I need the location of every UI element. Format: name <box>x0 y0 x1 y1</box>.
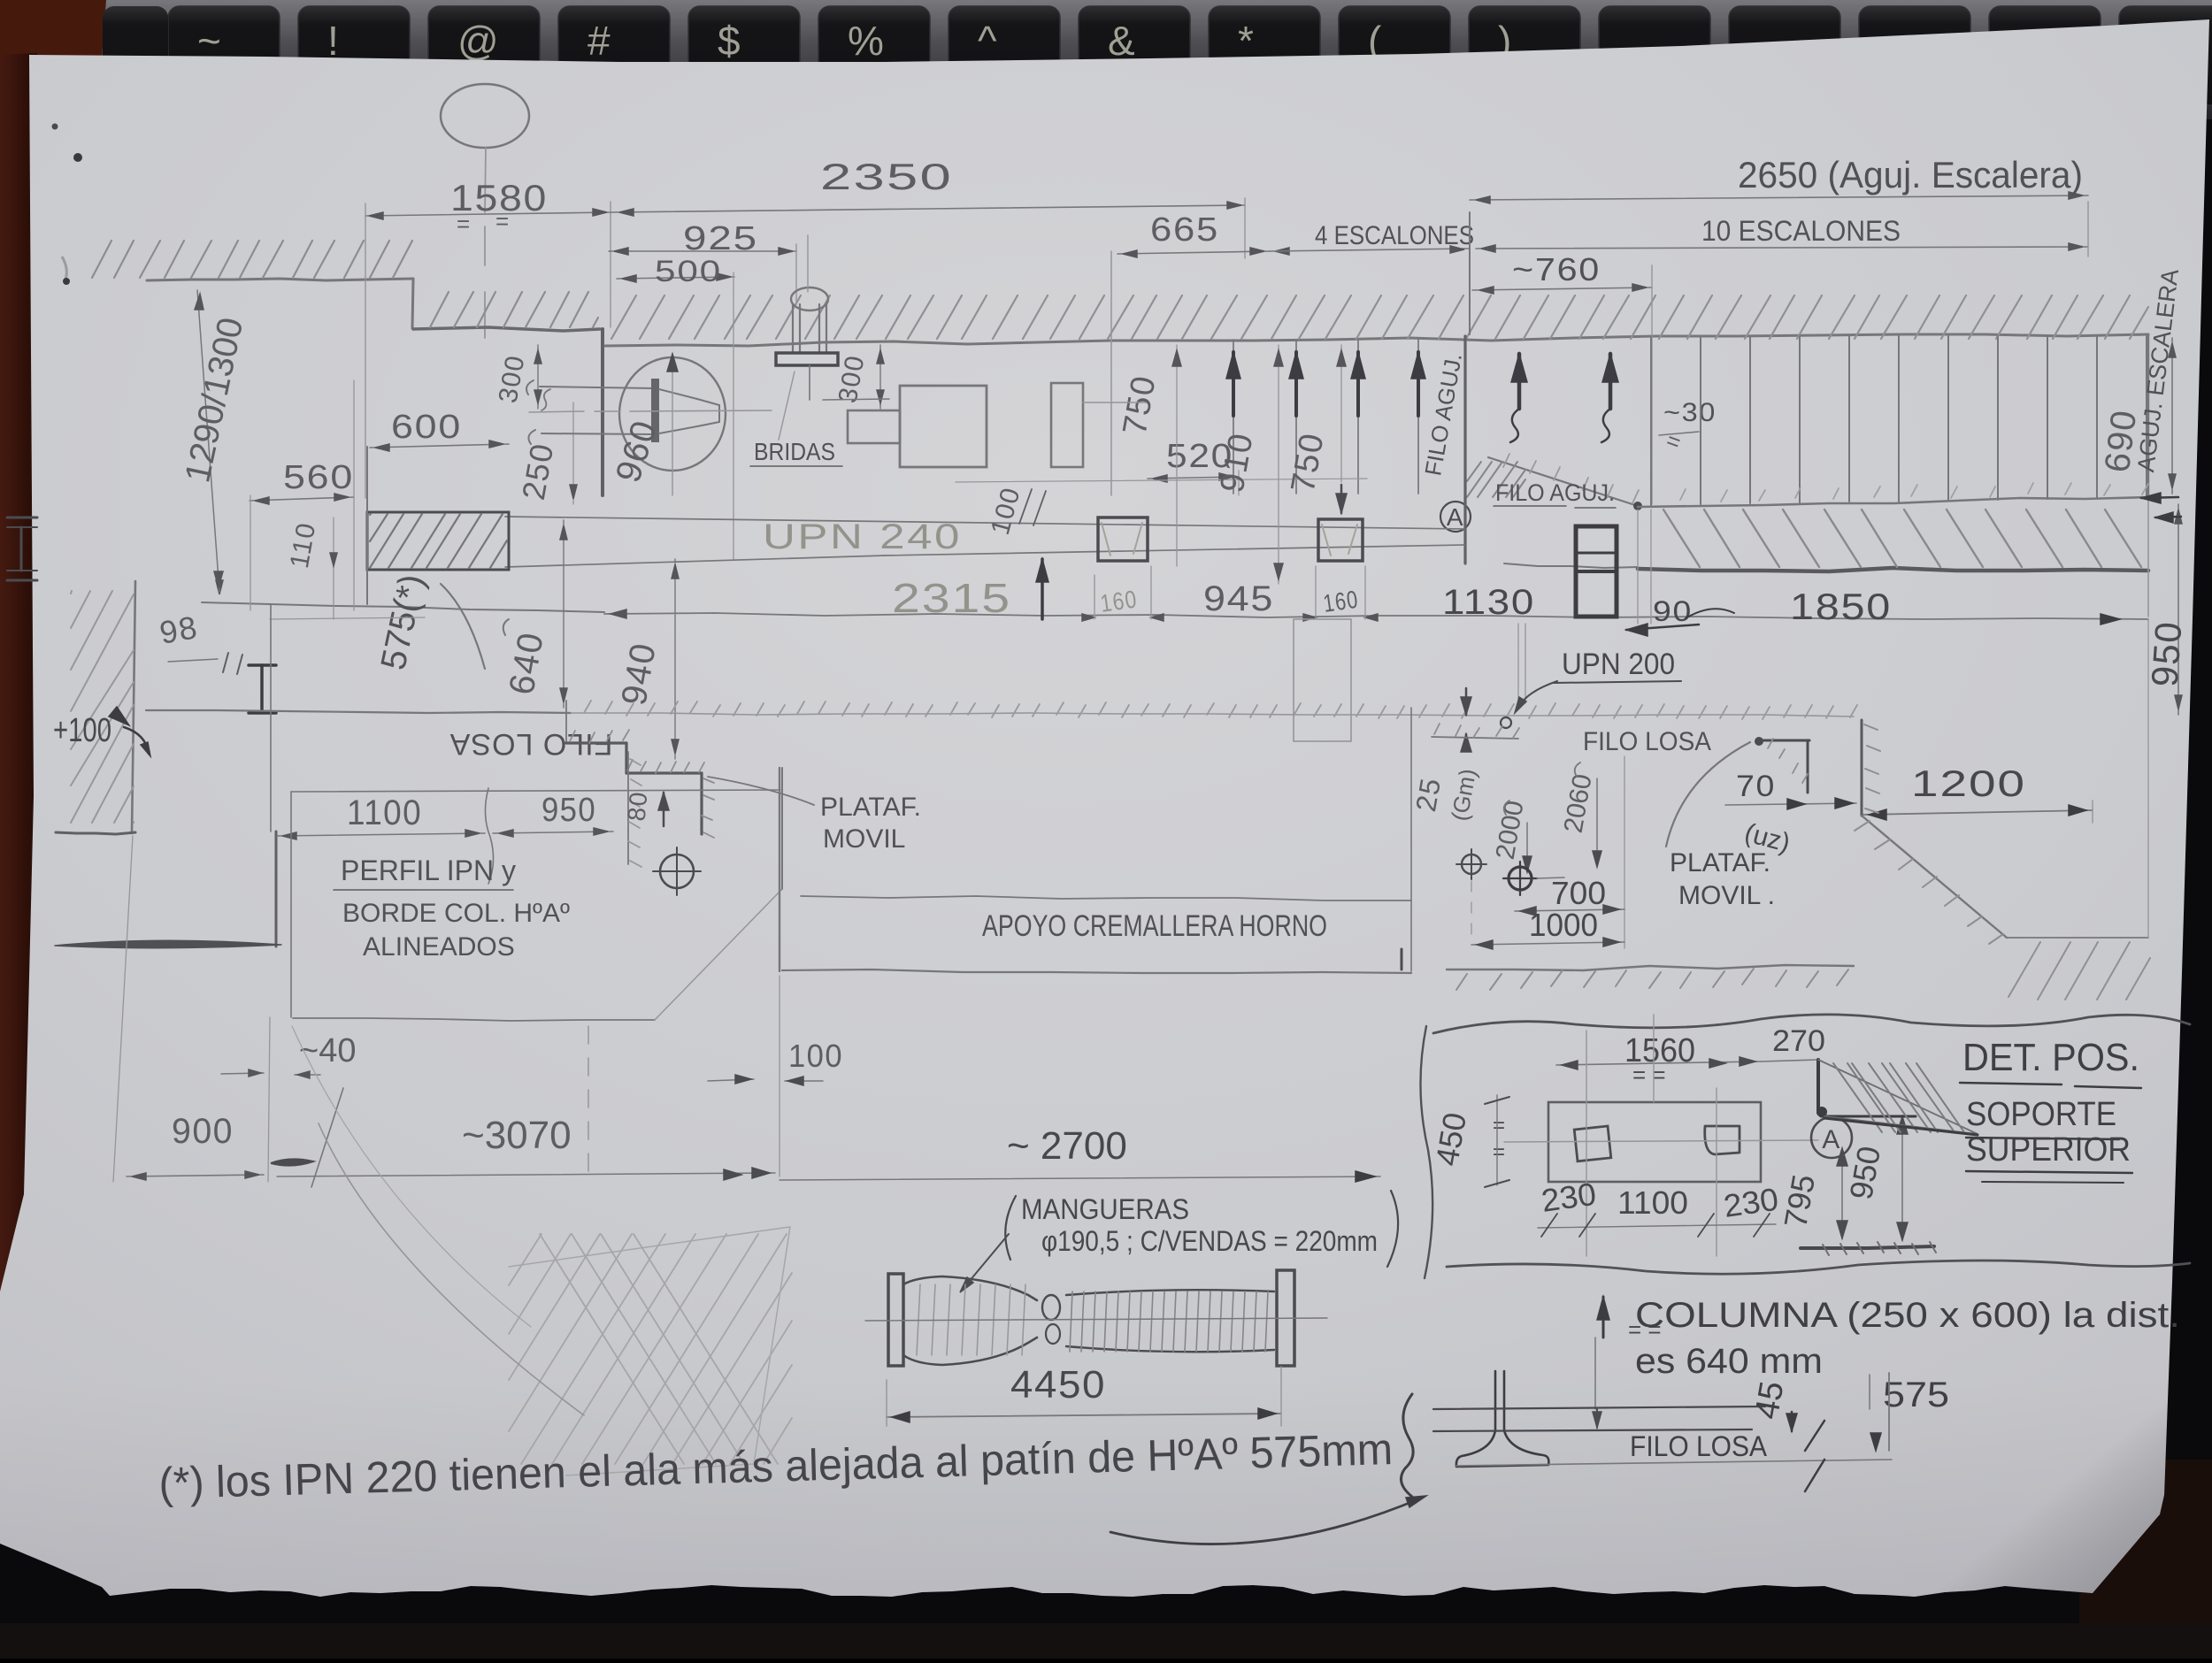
svg-text:70: 70 <box>1736 770 1776 803</box>
svg-text:230: 230 <box>1721 1181 1780 1224</box>
svg-text:945: 945 <box>1203 579 1274 618</box>
svg-text:%: % <box>848 18 884 64</box>
svg-text:+100: +100 <box>53 712 111 749</box>
svg-text:2315: 2315 <box>892 575 1011 621</box>
svg-text:25: 25 <box>1409 775 1447 814</box>
svg-text:UPN 240: UPN 240 <box>763 517 962 556</box>
svg-text:SUPERIOR: SUPERIOR <box>1966 1131 2131 1169</box>
svg-text:UPN 200: UPN 200 <box>1562 648 1675 681</box>
svg-text:90: 90 <box>1653 595 1693 627</box>
svg-text:2350: 2350 <box>820 156 953 197</box>
svg-text:= =: = = <box>1632 1061 1666 1088</box>
svg-text:φ190,5 ; C/VENDAS = 220mm: φ190,5 ; C/VENDAS = 220mm <box>1041 1225 1378 1257</box>
svg-text:&: & <box>1108 18 1135 64</box>
svg-text:PERFIL IPN y: PERFIL IPN y <box>341 854 516 886</box>
svg-text:#: # <box>588 18 611 64</box>
svg-text:950: 950 <box>2143 619 2189 688</box>
svg-text:MOVIL: MOVIL <box>823 824 905 854</box>
svg-text:~760: ~760 <box>1512 251 1601 287</box>
svg-text:~40: ~40 <box>299 1032 356 1069</box>
svg-text:1100: 1100 <box>1617 1184 1688 1221</box>
svg-text:700: 700 <box>1551 875 1606 911</box>
svg-text:1200: 1200 <box>1911 763 2026 804</box>
svg-text:665: 665 <box>1150 211 1219 249</box>
svg-text:4 ESCALONES: 4 ESCALONES <box>1315 221 1474 250</box>
svg-text:925: 925 <box>683 220 758 257</box>
svg-text:DET. POS.: DET. POS. <box>1962 1036 2139 1079</box>
svg-text:=: = <box>1493 1140 1507 1164</box>
svg-text:$: $ <box>718 18 741 64</box>
svg-text:45: 45 <box>1748 1378 1792 1422</box>
svg-text:=: = <box>495 208 511 234</box>
svg-text:160: 160 <box>1322 586 1361 617</box>
svg-text:950: 950 <box>541 792 596 829</box>
svg-text:10 ESCALONES: 10 ESCALONES <box>1701 215 1901 247</box>
svg-text:MOVIL .: MOVIL . <box>1678 881 1775 910</box>
svg-text:es 640 mm: es 640 mm <box>1635 1342 1823 1381</box>
svg-text:=: = <box>457 211 472 237</box>
svg-text:575: 575 <box>1883 1376 1949 1414</box>
svg-text:2650 (Aguj. Escalera): 2650 (Aguj. Escalera) <box>1738 154 2083 195</box>
svg-text:^: ^ <box>978 18 997 64</box>
svg-text:APOYO CREMALLERA HORNO: APOYO CREMALLERA HORNO <box>982 909 1327 943</box>
svg-text:160: 160 <box>1099 585 1140 617</box>
svg-text:BORDE COL. HºAº: BORDE COL. HºAº <box>342 899 570 928</box>
svg-text:1000: 1000 <box>1529 907 1598 943</box>
svg-text:80: 80 <box>623 790 653 823</box>
svg-text:~3070: ~3070 <box>462 1114 572 1157</box>
svg-text:1130: 1130 <box>1442 583 1535 622</box>
svg-text:~30: ~30 <box>1663 398 1717 427</box>
svg-text:FILO AGUJ.: FILO AGUJ. <box>1495 479 1615 506</box>
svg-text:560: 560 <box>283 459 354 496</box>
svg-text:A: A <box>1447 503 1464 531</box>
svg-text:FILO LOSA: FILO LOSA <box>1583 727 1711 756</box>
svg-text:MANGUERAS: MANGUERAS <box>1021 1193 1189 1225</box>
svg-text:1850: 1850 <box>1790 586 1892 627</box>
svg-text:PLATAF.: PLATAF. <box>820 793 921 822</box>
svg-text:A: A <box>1822 1125 1841 1154</box>
svg-text:270: 270 <box>1772 1024 1825 1058</box>
svg-text:230: 230 <box>1539 1176 1598 1219</box>
svg-text:1100: 1100 <box>347 793 422 832</box>
svg-text:BRIDAS: BRIDAS <box>754 438 835 465</box>
svg-text:600: 600 <box>391 409 462 446</box>
svg-text:COLUMNA (250 x 600) la dist.: COLUMNA (250 x 600) la dist. <box>1635 1296 2180 1335</box>
svg-text:=: = <box>1493 1114 1507 1138</box>
svg-text:900: 900 <box>172 1112 234 1151</box>
svg-text:4450: 4450 <box>1010 1363 1106 1406</box>
svg-text:!: ! <box>327 18 339 64</box>
svg-text:PLATAF.: PLATAF. <box>1670 848 1770 877</box>
svg-text:ALINEADOS: ALINEADOS <box>363 932 515 962</box>
svg-text:500: 500 <box>655 255 722 288</box>
svg-text:98: 98 <box>157 609 201 651</box>
svg-text:FILO LOSA: FILO LOSA <box>1630 1430 1768 1462</box>
svg-text:@: @ <box>457 18 499 64</box>
svg-text:100: 100 <box>788 1038 843 1074</box>
svg-text:~ 2700: ~ 2700 <box>1007 1124 1127 1168</box>
svg-text:SOPORTE: SOPORTE <box>1966 1096 2116 1133</box>
